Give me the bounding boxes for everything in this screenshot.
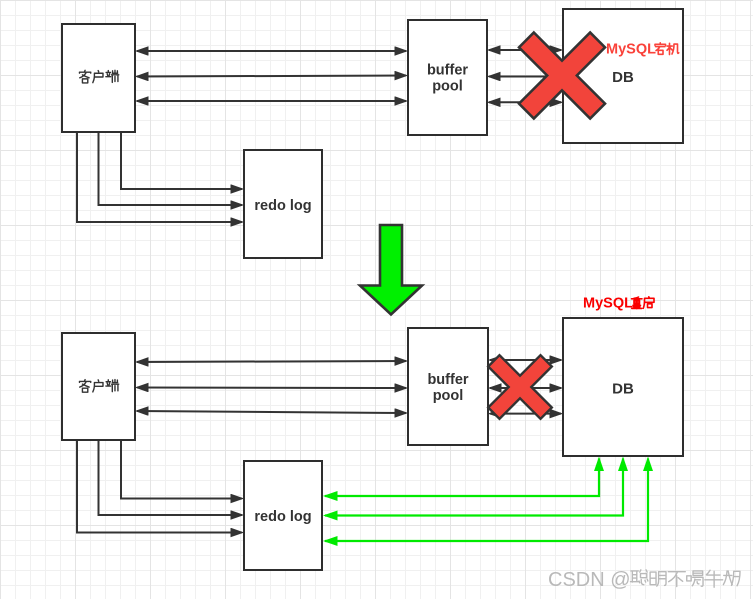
svg-text:pool: pool bbox=[433, 388, 464, 404]
svg-text:MySQL: MySQL bbox=[583, 296, 633, 312]
svg-text:redo log: redo log bbox=[254, 198, 311, 214]
svg-text:redo log: redo log bbox=[254, 509, 311, 525]
svg-text:DB: DB bbox=[612, 69, 634, 86]
svg-text:pool: pool bbox=[432, 79, 463, 95]
svg-text:buffer: buffer bbox=[427, 372, 468, 388]
svg-text:DB: DB bbox=[612, 381, 634, 398]
svg-text:MySQL: MySQL bbox=[606, 42, 656, 58]
svg-text:CSDN @: CSDN @ bbox=[548, 569, 631, 591]
svg-text:buffer: buffer bbox=[427, 63, 468, 79]
